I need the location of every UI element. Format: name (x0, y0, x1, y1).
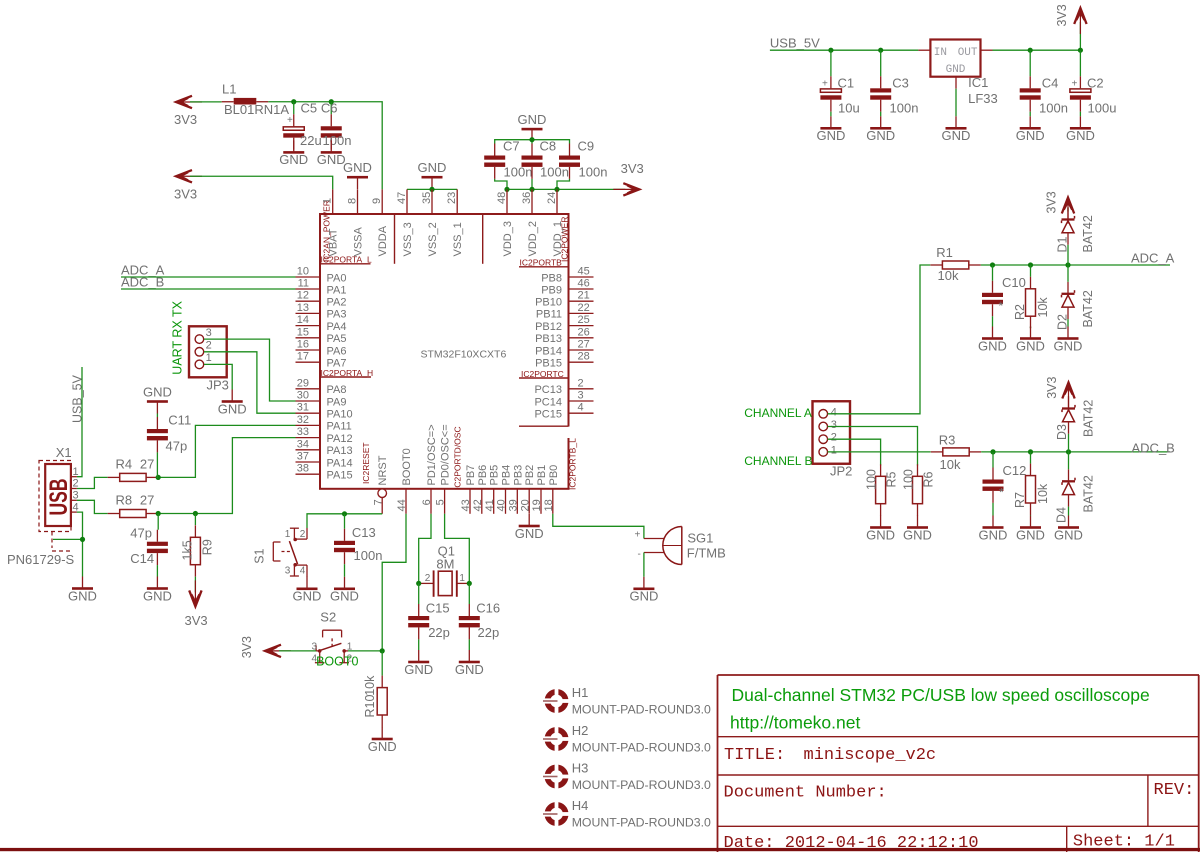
ground under R10 (368, 727, 397, 754)
svg-text:STM32F10XCXT6: STM32F10XCXT6 (421, 348, 507, 360)
wire C7 bottom to VDD_3 pin 48 (495, 179, 507, 190)
svg-text:JP2: JP2 (830, 463, 852, 478)
svg-text:C10: C10 (1002, 275, 1026, 290)
svg-text:1k5: 1k5 (181, 540, 195, 560)
svg-text:10k: 10k (938, 268, 959, 283)
svg-text:VDD_2: VDD_2 (527, 221, 539, 256)
svg-text:2: 2 (300, 529, 306, 540)
IC2 pin 6 PD1/OSC=> (421, 424, 438, 513)
net label UART RX TX (170, 300, 184, 374)
junction D1 D2 (1065, 262, 1070, 267)
svg-text:GND: GND (418, 160, 447, 175)
svg-text:24: 24 (546, 192, 558, 204)
wire C12 to GND (992, 503, 994, 516)
junction D3 D4 (1066, 449, 1071, 454)
svg-text:22u: 22u (300, 133, 322, 148)
svg-text:MOUNT-PAD-ROUND3.0: MOUNT-PAD-ROUND3.0 (572, 741, 711, 755)
svg-text:PB11: PB11 (536, 309, 562, 321)
svg-text:PB9: PB9 (541, 284, 562, 296)
svg-text:27: 27 (140, 457, 154, 472)
wire JP3 pin 3 to PA9 (204, 339, 296, 401)
svg-text:C4: C4 (1042, 76, 1059, 91)
capacitor C15 22p (408, 583, 450, 640)
svg-text:28: 28 (578, 351, 590, 363)
junction R7 (1028, 449, 1033, 454)
svg-text:IC2RESET: IC2RESET (361, 442, 371, 484)
wire JP2 pin2 to R5 (828, 439, 881, 465)
svg-text:11: 11 (298, 278, 309, 290)
ground under R2 (1016, 327, 1045, 354)
ground under C3 (866, 116, 895, 143)
IC2 gate name IC2RESET (361, 442, 371, 484)
IC2 pin 40 PB4 (496, 465, 513, 514)
svg-text:C1: C1 (838, 76, 855, 91)
svg-text:VDDA: VDDA (377, 225, 389, 256)
svg-text:GND: GND (946, 64, 966, 76)
svg-text:PB14: PB14 (535, 345, 562, 357)
svg-text:4: 4 (300, 566, 306, 577)
junction BOOT0/R10 (380, 648, 385, 653)
power net 3V3 arrow (down, under R9) (185, 580, 208, 628)
svg-text:13: 13 (297, 302, 309, 314)
IC2 pin 13 PA3 (296, 302, 347, 321)
svg-text:PA14: PA14 (327, 457, 353, 469)
svg-text:PA10: PA10 (327, 409, 353, 421)
svg-text:UART RX TX: UART RX TX (170, 300, 184, 374)
IC2 gate name IC2PORTA_H (321, 368, 374, 378)
junction R4/C11 (156, 475, 161, 480)
wire R9 to 3V3 arrow (194, 577, 196, 593)
svg-text:PA3: PA3 (327, 309, 347, 321)
svg-text:10k: 10k (363, 675, 377, 696)
IC2 pin 25 PB12 (535, 314, 593, 333)
IC2 pin 42 PB6 (472, 465, 489, 514)
svg-text:C3: C3 (892, 76, 909, 91)
svg-text:3V3: 3V3 (1045, 377, 1059, 399)
svg-text:D4: D4 (1054, 507, 1068, 523)
svg-text:39: 39 (507, 499, 519, 511)
title block REV: (1154, 781, 1195, 800)
IC2 pin 46 PB9 (541, 278, 593, 297)
svg-text:GND: GND (1066, 128, 1095, 143)
ground under R6 (903, 516, 932, 543)
svg-text:GND: GND (629, 589, 658, 604)
IC2 pin 37 PA14 (296, 451, 353, 470)
wire PD1/OSC to crystal pin2 (419, 514, 431, 584)
wire C14 to GND (156, 565, 158, 576)
ground under C6 (317, 140, 346, 167)
svg-text:GND: GND (143, 588, 172, 603)
junction R8/C14 (156, 511, 161, 516)
IC2 pin 45 PB8 (541, 266, 593, 285)
svg-text:PA0: PA0 (327, 272, 347, 284)
IC2 pin 22 PB11 (536, 302, 594, 321)
capacitor C4 100n (1020, 50, 1068, 115)
switch S1 (253, 528, 308, 577)
svg-text:35: 35 (421, 192, 433, 204)
svg-text:1: 1 (285, 529, 291, 540)
svg-text:PB3: PB3 (512, 465, 524, 486)
svg-text:BAT42: BAT42 (1081, 290, 1095, 327)
svg-text:2: 2 (425, 573, 431, 584)
ground at pin 8 VSSA (343, 160, 372, 189)
svg-text:C6: C6 (321, 100, 338, 115)
svg-text:1: 1 (831, 444, 837, 456)
svg-text:VDD_3: VDD_3 (502, 221, 514, 256)
wire C9 bottom to VDD_1 pin 24 (557, 179, 570, 190)
svg-text:PA13: PA13 (327, 445, 353, 457)
junction C10 (990, 262, 995, 267)
mounting hole H4 MOUNT-PAD-ROUND3.0 (543, 798, 711, 830)
svg-text:BOOT0: BOOT0 (401, 448, 413, 485)
svg-text:MOUNT-PAD-ROUND3.0: MOUNT-PAD-ROUND3.0 (572, 778, 711, 792)
IC2 pin 12 PA2 (296, 290, 347, 309)
svg-text:TITLE:: TITLE: (724, 746, 785, 765)
diode D3 BAT42 (1055, 397, 1096, 441)
IC2 pin 48 VDD_3 (496, 189, 514, 256)
title block frame (718, 675, 1200, 852)
IC2 pin 7 NRST with inversion bubble (372, 455, 389, 514)
svg-text:GND: GND (218, 401, 247, 416)
svg-text:CHANNEL A: CHANNEL A (744, 406, 812, 420)
wire D3 to 3V3 arrow (1068, 396, 1070, 399)
svg-text:PN61729-S: PN61729-S (7, 552, 75, 567)
junction VDD_2 (529, 187, 534, 192)
svg-text:-: - (638, 549, 641, 560)
wire 3V3 rail from arrow to L1 (190, 101, 222, 103)
svg-text:100n: 100n (323, 133, 352, 148)
svg-text:10k: 10k (1036, 483, 1050, 504)
title block Date: 2012-04-16 22:12:10 (724, 834, 979, 852)
wire VDD bus to 3V3 arrow (507, 188, 625, 190)
svg-text:MOUNT-PAD-ROUND3.0: MOUNT-PAD-ROUND3.0 (572, 703, 711, 717)
junction VDD_1 (554, 187, 559, 192)
IC2 pin 30 PA9 (296, 390, 347, 409)
svg-text:GND: GND (978, 338, 1007, 353)
IC2 pin 8 VSSA (346, 189, 364, 256)
svg-text:Sheet: 1/1: Sheet: 1/1 (1073, 833, 1175, 852)
ground above C11 (143, 384, 172, 413)
svg-text:C11: C11 (168, 413, 191, 428)
wire R5 to GND (880, 515, 882, 517)
svg-text:PA5: PA5 (327, 333, 347, 345)
net label ADC_A (right) (1131, 251, 1175, 266)
ground under R5 (866, 516, 895, 543)
svg-text:GND: GND (1016, 527, 1045, 542)
capacitor C6 100n (321, 100, 352, 149)
IC2 pin 26 PB13 (535, 326, 593, 345)
wire C1 to GND (830, 112, 832, 117)
IC2 value STM32F10XCXT6 (421, 348, 507, 360)
svg-text:+: + (1072, 79, 1078, 90)
svg-text:15: 15 (297, 326, 309, 338)
junction R2 (1028, 262, 1033, 267)
wire NRST net (pin7 to S1 and C13) (307, 514, 382, 528)
capacitor C1 10u (polarized) (820, 50, 859, 115)
svg-text:19: 19 (531, 499, 543, 511)
wire C4 to GND (1029, 112, 1031, 117)
svg-text:17: 17 (297, 351, 309, 363)
svg-text:GND: GND (368, 739, 397, 754)
svg-text:R1: R1 (936, 245, 953, 260)
net label USB_5V (top right) (770, 36, 820, 51)
svg-text:PB8: PB8 (541, 272, 562, 284)
ground under C16 (455, 650, 484, 677)
net label USB_5V (left, vertical) (70, 374, 84, 423)
svg-text:GND: GND (143, 384, 172, 399)
capacitor C10 (982, 265, 1026, 316)
capacitor C5 22u (283, 100, 321, 149)
capacitor C12 (983, 452, 1027, 503)
wire D1 to 3V3 arrow (1067, 208, 1069, 212)
svg-text:3: 3 (578, 390, 584, 402)
svg-text:100u: 100u (1088, 100, 1117, 115)
svg-text:31: 31 (297, 402, 309, 414)
IC2 pin 19 PB1 (531, 465, 548, 514)
svg-text:GND: GND (343, 160, 372, 175)
svg-text:1: 1 (206, 352, 212, 364)
wire C11 bottom to R4 junction (156, 452, 159, 477)
svg-text:GND: GND (866, 527, 895, 542)
svg-text:*: * (999, 486, 1004, 500)
resistor R8 27 (108, 493, 158, 518)
svg-text:R6: R6 (922, 471, 936, 487)
wire C8 bottom to VDD_2 pin 36 (531, 179, 533, 190)
ground under C1 (816, 116, 845, 143)
wire PB0 to SG1 (553, 514, 644, 539)
resistor R10 10k (363, 651, 387, 727)
IC2 pin 32 PA11 (296, 414, 352, 433)
svg-text:GND: GND (330, 589, 359, 604)
svg-text:Dual-channel STM32 PC/USB low: Dual-channel STM32 PC/USB low speed osci… (732, 685, 1150, 705)
svg-text:C14: C14 (130, 551, 154, 566)
power net 3V3 arrow (above D1) (1045, 191, 1075, 223)
svg-text:GND: GND (317, 152, 346, 167)
svg-text:100n: 100n (1039, 100, 1068, 115)
capacitor C9 100n (559, 139, 607, 180)
svg-text:BL01RN1A: BL01RN1A (224, 102, 289, 117)
svg-text:12: 12 (297, 290, 309, 302)
svg-text:+: + (822, 79, 828, 90)
junction C4 (1028, 48, 1033, 53)
svg-text:R5: R5 (885, 471, 899, 487)
svg-text:GND: GND (293, 589, 322, 604)
svg-text:PC15: PC15 (534, 409, 562, 421)
power net 3V3 supply arrow (second, to VBAT) (174, 170, 202, 201)
svg-text:45: 45 (578, 266, 590, 278)
svg-text:X1: X1 (56, 445, 72, 460)
junction C3 (878, 48, 883, 53)
ground under C10 (978, 327, 1007, 354)
wire USB_5V rail to IC1 IN (770, 49, 919, 51)
wire C10 to GND (992, 316, 994, 326)
svg-text:4: 4 (831, 406, 837, 418)
svg-text:CHANNEL B: CHANNEL B (744, 454, 812, 468)
IC2 pin 11 PA1 (296, 278, 347, 297)
IC2 pin 36 VDD_2 (521, 189, 539, 256)
wire D1 anode to ADC_A (1067, 245, 1069, 265)
title text http://tomeko.net (730, 713, 860, 733)
svg-text:IC1: IC1 (968, 75, 988, 90)
wire X1 pin3 to R8 (77, 500, 108, 513)
svg-text:H3: H3 (572, 760, 589, 775)
microcontroller IC2 STM32F10XCXT6 body (320, 214, 571, 489)
svg-text:100: 100 (901, 469, 915, 490)
IC2 pin 9 VDDA (371, 189, 389, 256)
svg-text:3: 3 (831, 419, 837, 431)
svg-text:3V3: 3V3 (174, 186, 197, 201)
IC2 pin 20 PB2 (519, 465, 536, 514)
wire BOOT0 net (pin 44 to S2/R10) (382, 514, 406, 651)
svg-text:R4: R4 (116, 457, 133, 472)
svg-text:30: 30 (297, 390, 309, 402)
svg-text:PB0: PB0 (548, 465, 560, 486)
wire C2 to GND (1079, 112, 1081, 117)
svg-text:2: 2 (578, 377, 584, 389)
ground under C14 (143, 577, 172, 604)
svg-text:3V3: 3V3 (240, 636, 254, 658)
svg-text:D3: D3 (1055, 424, 1069, 440)
svg-text:GND: GND (1054, 338, 1083, 353)
svg-text:47: 47 (396, 192, 408, 204)
IC2 pin 14 PA4 (296, 314, 347, 333)
svg-text:R9: R9 (200, 539, 214, 555)
IC2 pin 33 PA12 (296, 426, 353, 445)
svg-text:PB5: PB5 (489, 465, 501, 486)
net label BOOT0 (316, 654, 358, 668)
svg-text:USB: USB (45, 479, 73, 516)
svg-text:6: 6 (421, 499, 433, 505)
ground under C2 (1066, 116, 1095, 143)
svg-text:IC2PORTD/OSC: IC2PORTD/OSC (453, 426, 463, 490)
svg-text:1: 1 (459, 573, 465, 584)
svg-text:40: 40 (496, 499, 508, 511)
svg-text:47p: 47p (130, 526, 152, 541)
IC2 gate name IC2PORTB_L (568, 438, 578, 490)
svg-text:22p: 22p (428, 625, 450, 640)
ferrite bead L1 BL01RN1A (222, 82, 290, 117)
svg-text:miniscope_v2c: miniscope_v2c (804, 746, 937, 765)
junction NRST/C13 (342, 511, 347, 516)
ground above VSS pins (418, 160, 447, 189)
svg-text:OUT: OUT (958, 47, 978, 59)
svg-text:36: 36 (521, 192, 533, 204)
capacitor C13 100n (334, 514, 382, 564)
svg-text:H1: H1 (572, 685, 589, 700)
buzzer SG1 F/TMB (635, 527, 726, 565)
svg-text:22: 22 (578, 302, 590, 314)
mounting hole H2 MOUNT-PAD-ROUND3.0 (543, 723, 711, 755)
power net 3V3 arrow (left of S2) (240, 636, 291, 658)
svg-text:R2: R2 (1013, 304, 1027, 320)
svg-text:PC13: PC13 (534, 384, 562, 396)
svg-text:PB6: PB6 (477, 465, 489, 486)
IC2 pin 27 PB14 (535, 339, 593, 358)
svg-text:S1: S1 (253, 548, 267, 563)
IC2 gate name IC2PORTB (520, 258, 563, 268)
svg-text:10k: 10k (1036, 297, 1050, 318)
svg-text:3: 3 (285, 566, 291, 577)
power net 3V3 arrow (top right, up) (1055, 4, 1087, 34)
IC2 gate name IC2AN_POWER (322, 200, 332, 262)
wire ADC_B net (981, 451, 1170, 453)
svg-text:27: 27 (578, 339, 590, 351)
IC2 pin 28 PB15 (535, 351, 593, 370)
svg-text:IC2PORTB_L: IC2PORTB_L (568, 438, 578, 490)
IC2 pin 31 PA10 (296, 402, 353, 421)
IC2 pin 44 BOOT0 (396, 448, 413, 514)
svg-text:GND: GND (816, 128, 845, 143)
wire L1 to VDDA rail (268, 102, 382, 190)
svg-text:PA8: PA8 (327, 384, 347, 396)
svg-text:VSS_1: VSS_1 (452, 222, 464, 256)
svg-text:5: 5 (435, 499, 447, 505)
wire JP2 pin1 (channel B) to R3 (828, 451, 931, 453)
svg-text:14: 14 (297, 314, 309, 326)
capacitor C8 100n (522, 139, 569, 180)
wire JP3 pin 1 to GND (204, 364, 232, 389)
wire IC1 OUT to 3V3 arrow (993, 22, 1081, 50)
svg-text:3V3: 3V3 (1055, 4, 1069, 26)
svg-text:46: 46 (578, 278, 590, 290)
capacitor C7 100n (484, 139, 532, 180)
svg-text:GND: GND (1016, 338, 1045, 353)
svg-text:+: + (287, 115, 293, 126)
IC2 pin 18 PB0 (543, 465, 560, 514)
wire JP3 pin 2 to PA10 (204, 352, 296, 413)
svg-text:3V3: 3V3 (621, 161, 644, 176)
junction crystal pin1 / C16 (467, 581, 472, 586)
IC2 pin 21 PB10 (535, 290, 593, 309)
IC2 pin 4 PC15 (534, 402, 593, 421)
svg-text:GND: GND (1016, 128, 1045, 143)
svg-text:H2: H2 (572, 723, 589, 738)
svg-text:D2: D2 (1055, 314, 1069, 330)
svg-text:PA7: PA7 (327, 358, 347, 370)
diode D4 BAT42 (1054, 469, 1095, 523)
svg-text:2: 2 (831, 432, 837, 444)
wire R2 to GND (1030, 327, 1032, 329)
ground under C4 (1016, 116, 1045, 143)
svg-text:18: 18 (543, 499, 555, 511)
net label ADC_A (to PA0) (121, 263, 296, 278)
svg-text:NRST: NRST (377, 455, 389, 485)
svg-text:LF33: LF33 (968, 91, 998, 106)
svg-text:42: 42 (472, 499, 484, 511)
wire R6 to GND (917, 515, 919, 517)
svg-text:C12: C12 (1003, 463, 1027, 478)
svg-text:http://tomeko.net: http://tomeko.net (730, 713, 860, 733)
wire VSS bus pins 47 35 23 (407, 188, 457, 190)
svg-text:PA9: PA9 (327, 396, 347, 408)
svg-text:PA1: PA1 (327, 284, 347, 296)
svg-text:PD0/OSC<=: PD0/OSC<= (440, 424, 452, 485)
junction GND / C8 (529, 137, 534, 142)
IC2 gate name IC2PORTA_L (321, 255, 372, 265)
junction VSS_2 (429, 187, 434, 192)
wire C3 to GND (880, 112, 882, 117)
ground under C15 (404, 650, 433, 677)
capacitor C2 100u (polarized) (1070, 50, 1117, 115)
svg-text:PA4: PA4 (327, 321, 347, 333)
svg-text:C9: C9 (578, 139, 595, 154)
svg-text:GND: GND (455, 662, 484, 677)
junction at C5 (291, 99, 296, 104)
svg-text:26: 26 (578, 326, 590, 338)
IC2 pin 16 PA6 (296, 339, 347, 358)
IC2 pin 41 PB5 (484, 465, 501, 514)
svg-text:*: * (999, 299, 1004, 313)
